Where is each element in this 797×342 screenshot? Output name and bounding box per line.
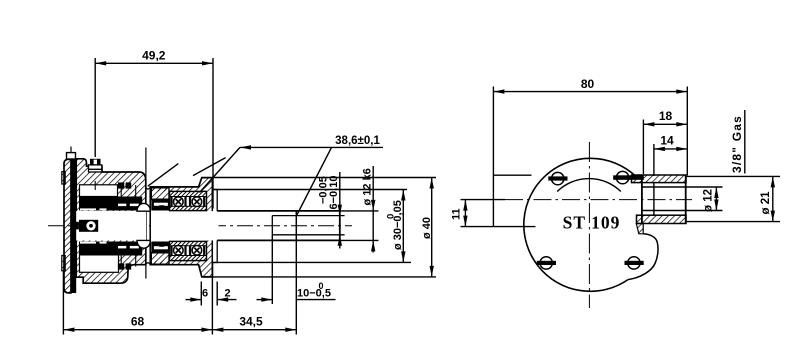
svg-text:2: 2: [225, 287, 231, 299]
dim 80 ext left: [492, 87, 494, 228]
grease boss base: [89, 165, 102, 172]
ext line x272 down: [271, 235, 273, 304]
leader 38,6 horizontal: [240, 146, 383, 148]
bottom seal sleeve band: [79, 242, 142, 256]
circlip squares bottom: [118, 263, 124, 269]
dim 6-2 ext a: [200, 282, 202, 306]
svg-text:10−0,5: 10−0,5: [297, 288, 331, 300]
dim 49,2 line: [95, 62, 213, 64]
boss joint segment: [94, 181, 96, 190]
dim o30 ext bottom: [212, 261, 411, 263]
LEFT-VIEW: [48, 147, 352, 294]
centerline shaft axis: [48, 225, 352, 227]
bearing bottom outer race band: [170, 256, 207, 261]
dim 68-34,5 line: [63, 329, 296, 331]
leader seal slant: [148, 164, 179, 187]
gap coupling block: [74, 222, 79, 230]
hatch joint lines bottom: [120, 256, 122, 267]
housing left wall (solid): [71, 159, 76, 293]
top seal sleeve band: [79, 197, 142, 211]
vertical centerline right view: [588, 142, 590, 308]
svg-text:6: 6: [202, 287, 208, 299]
bolt slot top-left: [552, 172, 564, 184]
dim 6-2 ext b long: [211, 263, 213, 335]
flange inner arc: [557, 179, 621, 192]
grease cap slot: [94, 160, 97, 165]
dim o12k6 ext top: [341, 210, 379, 212]
bearing pair top box: [170, 191, 207, 210]
flange tab top: [62, 172, 65, 184]
thread start line: [653, 183, 655, 216]
port top band: [632, 175, 687, 183]
dim 68 ext left: [62, 271, 64, 335]
dim o12 ext top: [686, 186, 723, 188]
dim o30 ext top: [213, 189, 407, 191]
seal lip white top: [154, 203, 168, 206]
shaft flat bottom line: [272, 234, 344, 236]
svg-text:18: 18: [659, 109, 673, 123]
pin center dot: [89, 224, 93, 228]
groove line x296: [295, 211, 297, 241]
seal block top hatch: [151, 188, 169, 199]
port bore line bottom: [642, 210, 686, 212]
bottom cavity: [80, 254, 119, 273]
svg-text:0: 0: [386, 214, 397, 219]
boot arc top: [146, 187, 151, 189]
spigot ring: [212, 190, 217, 263]
dim 11 line: [464, 200, 466, 227]
svg-text:38,6±0,1: 38,6±0,1: [335, 135, 380, 147]
bearing ball bottom-right: [192, 246, 202, 256]
ext line x296 down: [295, 240, 297, 334]
port top stripe black: [613, 175, 644, 179]
svg-text:11: 11: [451, 208, 463, 220]
port bore line top: [642, 186, 686, 188]
dim 10 arrow left: [257, 299, 273, 301]
dim 6 arrow: [186, 299, 202, 301]
pin housing block: [79, 220, 98, 232]
dim 80 ext right: [686, 87, 688, 176]
svg-text:0: 0: [319, 281, 324, 291]
carrier bolt line bottom: [145, 265, 147, 279]
shaft top line: [217, 210, 341, 212]
dim 6 flats line: [339, 172, 341, 249]
dim 2 arrow: [217, 299, 236, 301]
seal lip notch bottom: [159, 244, 165, 247]
dim o40 line: [431, 178, 433, 277]
dim o21 ext bottom: [686, 221, 780, 223]
flange circle outline: [524, 158, 636, 291]
dim 18 ext: [642, 120, 644, 175]
seal block top black: [151, 199, 169, 210]
dim 14 line: [654, 148, 687, 150]
svg-text:ø 12 k6: ø 12 k6: [362, 168, 374, 205]
seal lip notch top: [159, 205, 165, 208]
svg-text:80: 80: [581, 77, 595, 91]
dim 49,2 ext left: [94, 58, 96, 157]
port top ext line left: [494, 174, 532, 176]
port left face: [641, 175, 643, 224]
dim 18 line: [643, 123, 687, 125]
seal arc top: [137, 203, 151, 211]
dim o40 ext bottom: [204, 276, 436, 278]
shaft passage white through housing: [76, 211, 146, 240]
bearing bottom upper race band: [170, 241, 207, 245]
port axis centerline solid: [461, 199, 506, 201]
svg-text:3/8" Gas: 3/8" Gas: [730, 115, 744, 173]
shaft end face: [339, 211, 341, 241]
bolt slot bottom-left: [540, 257, 552, 269]
bearing carrier (hatched): [150, 178, 212, 277]
shaft flat top line: [272, 215, 344, 217]
port lower wedge: [636, 224, 643, 234]
port bottom band: [637, 215, 687, 223]
flange disc (left cover): [64, 159, 71, 293]
seal lip white bottom: [154, 246, 168, 249]
grease boss base inner line: [89, 168, 102, 170]
bearing top outer race band: [170, 191, 207, 196]
svg-text:49,2: 49,2: [142, 49, 166, 63]
seal block bottom black: [151, 242, 169, 253]
grease cap: [90, 159, 101, 165]
flange tab bottom: [62, 256, 65, 271]
dim o12 line: [715, 187, 717, 211]
bearing pair bottom box: [170, 241, 207, 260]
pin gap white: [76, 211, 79, 241]
svg-text:34,5: 34,5: [239, 314, 263, 328]
leader slant to groove: [297, 147, 332, 215]
bottom band white dashes: [80, 242, 96, 244]
center height line: [461, 226, 536, 228]
svg-text:ø 40: ø 40: [421, 217, 433, 239]
svg-text:ST 109: ST 109: [563, 212, 621, 232]
top band white dashes: [80, 208, 96, 210]
hatch joint lines top: [120, 185, 122, 197]
carrier left face line: [149, 187, 151, 265]
dim 80 line: [493, 91, 687, 93]
bearing bottom race bars: [170, 246, 172, 256]
bearing ball top-right: [192, 197, 202, 207]
shaft hole white through bump and spigot: [207, 211, 219, 240]
flat step edge: [271, 216, 273, 235]
svg-text:14: 14: [660, 134, 674, 148]
bolt slot bottom-right: [628, 257, 640, 269]
LEFT-VIEW-DIMENSIONS: [63, 49, 436, 335]
bolt slot top-right: [616, 171, 628, 183]
pin circle: [86, 221, 95, 230]
svg-text:ø 12: ø 12: [703, 189, 715, 212]
port right face: [685, 175, 687, 223]
port axis centerline dashdot: [505, 199, 692, 201]
RIGHT-VIEW: [451, 77, 781, 308]
dim o12k6 line: [372, 166, 374, 253]
flange top fitting: [67, 153, 76, 159]
svg-text:6−0,10: 6−0,10: [328, 176, 340, 210]
svg-text:68: 68: [131, 315, 145, 329]
bearing ball top-left: [174, 197, 184, 207]
dim 14 ext: [653, 144, 655, 176]
shaft bottom line: [217, 239, 341, 241]
bearing ball bottom-left: [174, 246, 184, 256]
dim 10 underline: [296, 299, 335, 301]
bearing top lower race band: [170, 206, 207, 210]
leader bearing slant: [193, 158, 226, 176]
seal block bottom hatch: [151, 253, 169, 264]
dim o21 line: [772, 176, 774, 221]
carrier bolt line top: [145, 148, 147, 182]
dim o21 ext top: [686, 175, 780, 177]
dim 6-2 ext c: [216, 282, 218, 306]
top cavity: [80, 185, 118, 197]
dim o12 ext bottom: [686, 210, 723, 212]
carrier bore white: [151, 191, 207, 260]
seal arc bottom: [137, 240, 151, 248]
fitting stem line: [70, 147, 72, 153]
svg-text:ø 30−0,05: ø 30−0,05: [392, 200, 404, 250]
notch curve: [628, 234, 658, 280]
dim o30 line: [402, 190, 404, 263]
leader slant to bearing: [200, 147, 241, 192]
dim 49,2 ext right: [212, 58, 214, 209]
housing body section (hatched): [76, 159, 146, 283]
bearing top race bars: [170, 197, 172, 207]
thread label underline: [744, 110, 746, 174]
svg-text:ø 21: ø 21: [760, 191, 772, 215]
boot arc bottom: [146, 263, 151, 265]
circlip squares top: [118, 182, 124, 188]
dim o12k6 ext bottom: [341, 239, 379, 241]
dim o40 ext top: [213, 177, 436, 179]
